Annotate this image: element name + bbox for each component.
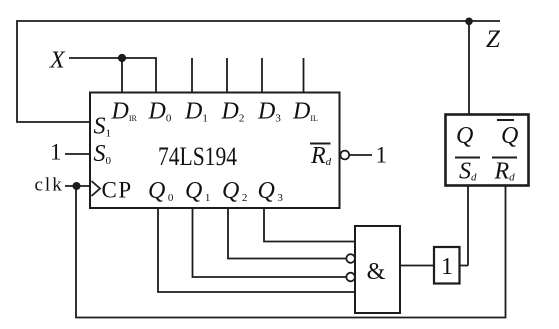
- svg-text:DIR: DIR: [111, 99, 138, 125]
- svg-text:Q3: Q3: [258, 178, 284, 204]
- svg-text:D2: D2: [221, 99, 245, 125]
- svg-text:1: 1: [441, 254, 453, 280]
- svg-text:Q1: Q1: [185, 178, 210, 204]
- svg-text:Rd: Rd: [310, 143, 332, 169]
- svg-text:Q: Q: [456, 123, 473, 149]
- svg-text:clk: clk: [35, 175, 64, 196]
- svg-text:S0: S0: [94, 141, 112, 167]
- svg-text:DIL: DIL: [292, 99, 318, 125]
- svg-text:X: X: [49, 48, 66, 74]
- svg-text:1: 1: [50, 140, 62, 165]
- svg-text:Q2: Q2: [222, 178, 247, 204]
- svg-text:Q0: Q0: [148, 178, 174, 204]
- svg-text:D3: D3: [257, 99, 281, 125]
- svg-text:D1: D1: [184, 99, 208, 125]
- svg-text:1: 1: [376, 143, 388, 168]
- svg-text:D0: D0: [148, 99, 172, 125]
- svg-text:Rd: Rd: [494, 159, 516, 185]
- svg-text:S1: S1: [94, 114, 112, 140]
- svg-text:74LS194: 74LS194: [158, 142, 237, 171]
- svg-text:Sd: Sd: [459, 159, 477, 185]
- svg-text:Q: Q: [501, 123, 518, 149]
- svg-text:CP: CP: [102, 178, 133, 203]
- svg-text:&: &: [367, 259, 386, 285]
- svg-text:Z: Z: [486, 26, 501, 53]
